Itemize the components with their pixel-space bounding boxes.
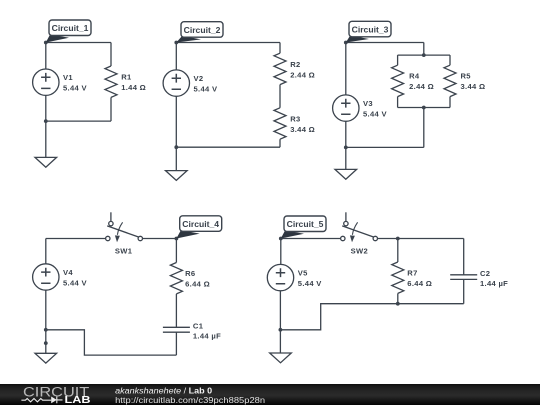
ground symbol Circuit_3 bbox=[335, 169, 357, 179]
resistor R3 bbox=[274, 108, 286, 139]
wire V3 bottom lead bbox=[345, 121, 347, 147]
ground symbol Circuit_4 bbox=[35, 353, 57, 363]
footer logo resistor zigzag and diode bbox=[21, 397, 62, 404]
wire V3 top lead bbox=[345, 43, 347, 95]
svg-text:Circuit_4: Circuit_4 bbox=[182, 219, 219, 229]
capacitor C2 bbox=[450, 275, 477, 280]
switch SW1 bbox=[106, 212, 143, 242]
svg-text:R7: R7 bbox=[407, 269, 417, 278]
node top Circuit_3 bbox=[344, 41, 348, 45]
wire parallel top rail bbox=[398, 54, 450, 56]
svg-text:R5: R5 bbox=[461, 72, 472, 81]
ground symbol Circuit_2 bbox=[166, 171, 188, 181]
wire feed from parallel bottom bbox=[423, 108, 425, 148]
svg-text:2.44 Ω: 2.44 Ω bbox=[409, 82, 434, 91]
wire R3 bottom lead bbox=[279, 139, 281, 147]
svg-text:V1: V1 bbox=[63, 73, 73, 82]
node top Circuit_2 bbox=[174, 41, 178, 45]
wire R7 node to C2 corner bbox=[398, 238, 464, 240]
wire V2 bottom lead bbox=[175, 96, 177, 147]
wire top rail Circuit_2 bbox=[176, 42, 280, 44]
wire feed to parallel top bbox=[423, 43, 425, 56]
wire R4 top lead bbox=[397, 55, 399, 65]
voltage source V2 bbox=[163, 70, 189, 96]
svg-text:2.44 Ω: 2.44 Ω bbox=[290, 70, 315, 79]
svg-text:5.44 V: 5.44 V bbox=[63, 84, 87, 93]
svg-text:R2: R2 bbox=[290, 60, 300, 69]
wire ground stem Circuit_5 bbox=[279, 330, 281, 353]
svg-text:R4: R4 bbox=[409, 72, 420, 81]
wire R1 bottom lead bbox=[110, 97, 112, 121]
wire V1 bottom lead bbox=[45, 95, 47, 121]
wire ground stem Circuit_2 bbox=[175, 147, 177, 170]
svg-text:SW1: SW1 bbox=[115, 246, 133, 255]
wire R5 top lead bbox=[449, 55, 451, 65]
wire R2 top lead bbox=[279, 43, 281, 54]
svg-text:C1: C1 bbox=[193, 322, 204, 331]
resistor R6 bbox=[170, 263, 182, 294]
net label Circuit_5 bbox=[281, 216, 326, 239]
node R7 bottom Circuit_5 bbox=[396, 302, 400, 306]
resistor R5 bbox=[444, 65, 456, 96]
wire SW2 to R7 node bbox=[378, 238, 398, 240]
svg-text:R3: R3 bbox=[290, 114, 300, 123]
wire C2 top lead bbox=[463, 239, 465, 275]
svg-text:C2: C2 bbox=[480, 269, 490, 278]
node R7 top Circuit_5 bbox=[396, 237, 400, 241]
wire V4 top lead bbox=[45, 239, 47, 264]
wire V5 top lead bbox=[280, 239, 282, 265]
svg-text:Circuit_5: Circuit_5 bbox=[287, 219, 324, 229]
wire bottom rail Circuit_3 bbox=[346, 146, 424, 148]
node bottom Circuit_3 bbox=[344, 146, 348, 150]
resistor R4 bbox=[392, 65, 404, 96]
voltage source V1 bbox=[33, 69, 59, 95]
svg-text:3.44 Ω: 3.44 Ω bbox=[461, 82, 486, 91]
node bottom Circuit_5 bbox=[279, 328, 283, 332]
wire V5 bottom lead bbox=[279, 291, 281, 330]
svg-text:Circuit_3: Circuit_3 bbox=[352, 25, 389, 35]
wire V4 to switch SW1 bbox=[46, 238, 106, 240]
node bottom Circuit_1 bbox=[44, 119, 48, 123]
wire V1 top lead bbox=[45, 43, 47, 70]
wire C2 bottom lead bbox=[463, 279, 465, 303]
svg-text:akankshanehete / Lab 0: akankshanehete / Lab 0 bbox=[115, 386, 212, 395]
node bottom Circuit_2 bbox=[174, 145, 178, 149]
ground symbol Circuit_1 bbox=[35, 157, 57, 167]
wire parallel bottom rail bbox=[398, 107, 450, 109]
capacitor C1 bbox=[163, 327, 190, 332]
voltage source V3 bbox=[333, 95, 359, 121]
wire bottom rail Circuit_2 bbox=[176, 146, 280, 148]
wire C1 bottom lead bbox=[175, 332, 177, 355]
svg-text:5.44 V: 5.44 V bbox=[363, 109, 387, 118]
wire node to switch SW2 bbox=[281, 238, 341, 240]
svg-text:R1: R1 bbox=[121, 73, 132, 82]
wire V2 top lead bbox=[175, 43, 177, 70]
svg-text:R6: R6 bbox=[185, 269, 195, 278]
wire top rail Circuit_3 bbox=[346, 42, 424, 44]
wire bottom return Circuit_4 bbox=[46, 330, 177, 355]
svg-text:V5: V5 bbox=[298, 268, 308, 277]
svg-text:1.44 µF: 1.44 µF bbox=[193, 332, 221, 341]
node parallel top Circuit_3 bbox=[422, 53, 426, 57]
node bottom Circuit_4 bbox=[44, 328, 48, 332]
wire R5 bottom lead bbox=[449, 97, 451, 108]
wire ground stem Circuit_3 bbox=[345, 147, 347, 169]
wire ground stem Circuit_4 bbox=[45, 330, 47, 354]
wire R1 top lead bbox=[110, 43, 112, 67]
wire bottom rail R7 to C2 bbox=[398, 303, 464, 305]
svg-text:LAB: LAB bbox=[65, 395, 91, 405]
voltage source V4 bbox=[33, 264, 59, 290]
svg-text:1.44 µF: 1.44 µF bbox=[480, 279, 508, 288]
svg-text:6.44 Ω: 6.44 Ω bbox=[407, 279, 432, 288]
wire R4 bottom lead bbox=[397, 97, 399, 108]
net label Circuit_3 bbox=[346, 21, 391, 42]
wire V4 bottom lead bbox=[45, 290, 47, 330]
svg-text:V3: V3 bbox=[363, 99, 373, 108]
resistor R2 bbox=[274, 53, 286, 84]
wire ground stem Circuit_1 bbox=[45, 121, 47, 157]
wire top rail Circuit_1 bbox=[46, 42, 111, 44]
svg-text:5.44 V: 5.44 V bbox=[63, 278, 87, 287]
wire SW1 to node bbox=[143, 238, 177, 240]
node top Circuit_5 bbox=[279, 237, 283, 241]
ground symbol Circuit_5 bbox=[270, 353, 292, 363]
svg-text:Circuit_2: Circuit_2 bbox=[184, 25, 221, 35]
net label Circuit_2 bbox=[176, 22, 223, 43]
wire R7 bottom lead bbox=[397, 293, 399, 303]
switch SW2 bbox=[341, 212, 378, 242]
node ground junction Circuit_4 bbox=[44, 341, 48, 345]
svg-text:5.44 V: 5.44 V bbox=[194, 84, 218, 93]
node top Circuit_4 bbox=[175, 237, 179, 241]
node A top Circuit_1 bbox=[44, 41, 48, 45]
voltage source V5 bbox=[267, 264, 293, 290]
svg-text:http://circuitlab.com/c39pch88: http://circuitlab.com/c39pch885p28n bbox=[115, 396, 265, 405]
wire R6 to C1 bbox=[175, 294, 177, 327]
wire between R2 and R3 bbox=[279, 85, 281, 108]
wire R7 top lead bbox=[397, 239, 399, 263]
svg-text:1.44 Ω: 1.44 Ω bbox=[121, 83, 146, 92]
svg-text:Circuit_1: Circuit_1 bbox=[52, 23, 89, 33]
resistor R7 bbox=[392, 262, 404, 293]
svg-text:SW2: SW2 bbox=[351, 246, 368, 255]
svg-text:5.44 V: 5.44 V bbox=[298, 279, 322, 288]
svg-text:V4: V4 bbox=[63, 268, 73, 277]
net label Circuit_1 bbox=[46, 20, 91, 43]
wire bottom rail Circuit_1 bbox=[46, 120, 111, 122]
node parallel bottom Circuit_3 bbox=[422, 106, 426, 110]
svg-text:6.44 Ω: 6.44 Ω bbox=[185, 280, 210, 289]
footer bar bbox=[0, 384, 540, 405]
wire R6 top lead bbox=[175, 239, 177, 263]
svg-text:3.44 Ω: 3.44 Ω bbox=[290, 125, 315, 134]
wire bottom return Circuit_5 bbox=[280, 304, 397, 330]
resistor R1 bbox=[105, 66, 117, 97]
svg-text:V2: V2 bbox=[194, 74, 204, 83]
net label Circuit_4 bbox=[176, 216, 221, 239]
